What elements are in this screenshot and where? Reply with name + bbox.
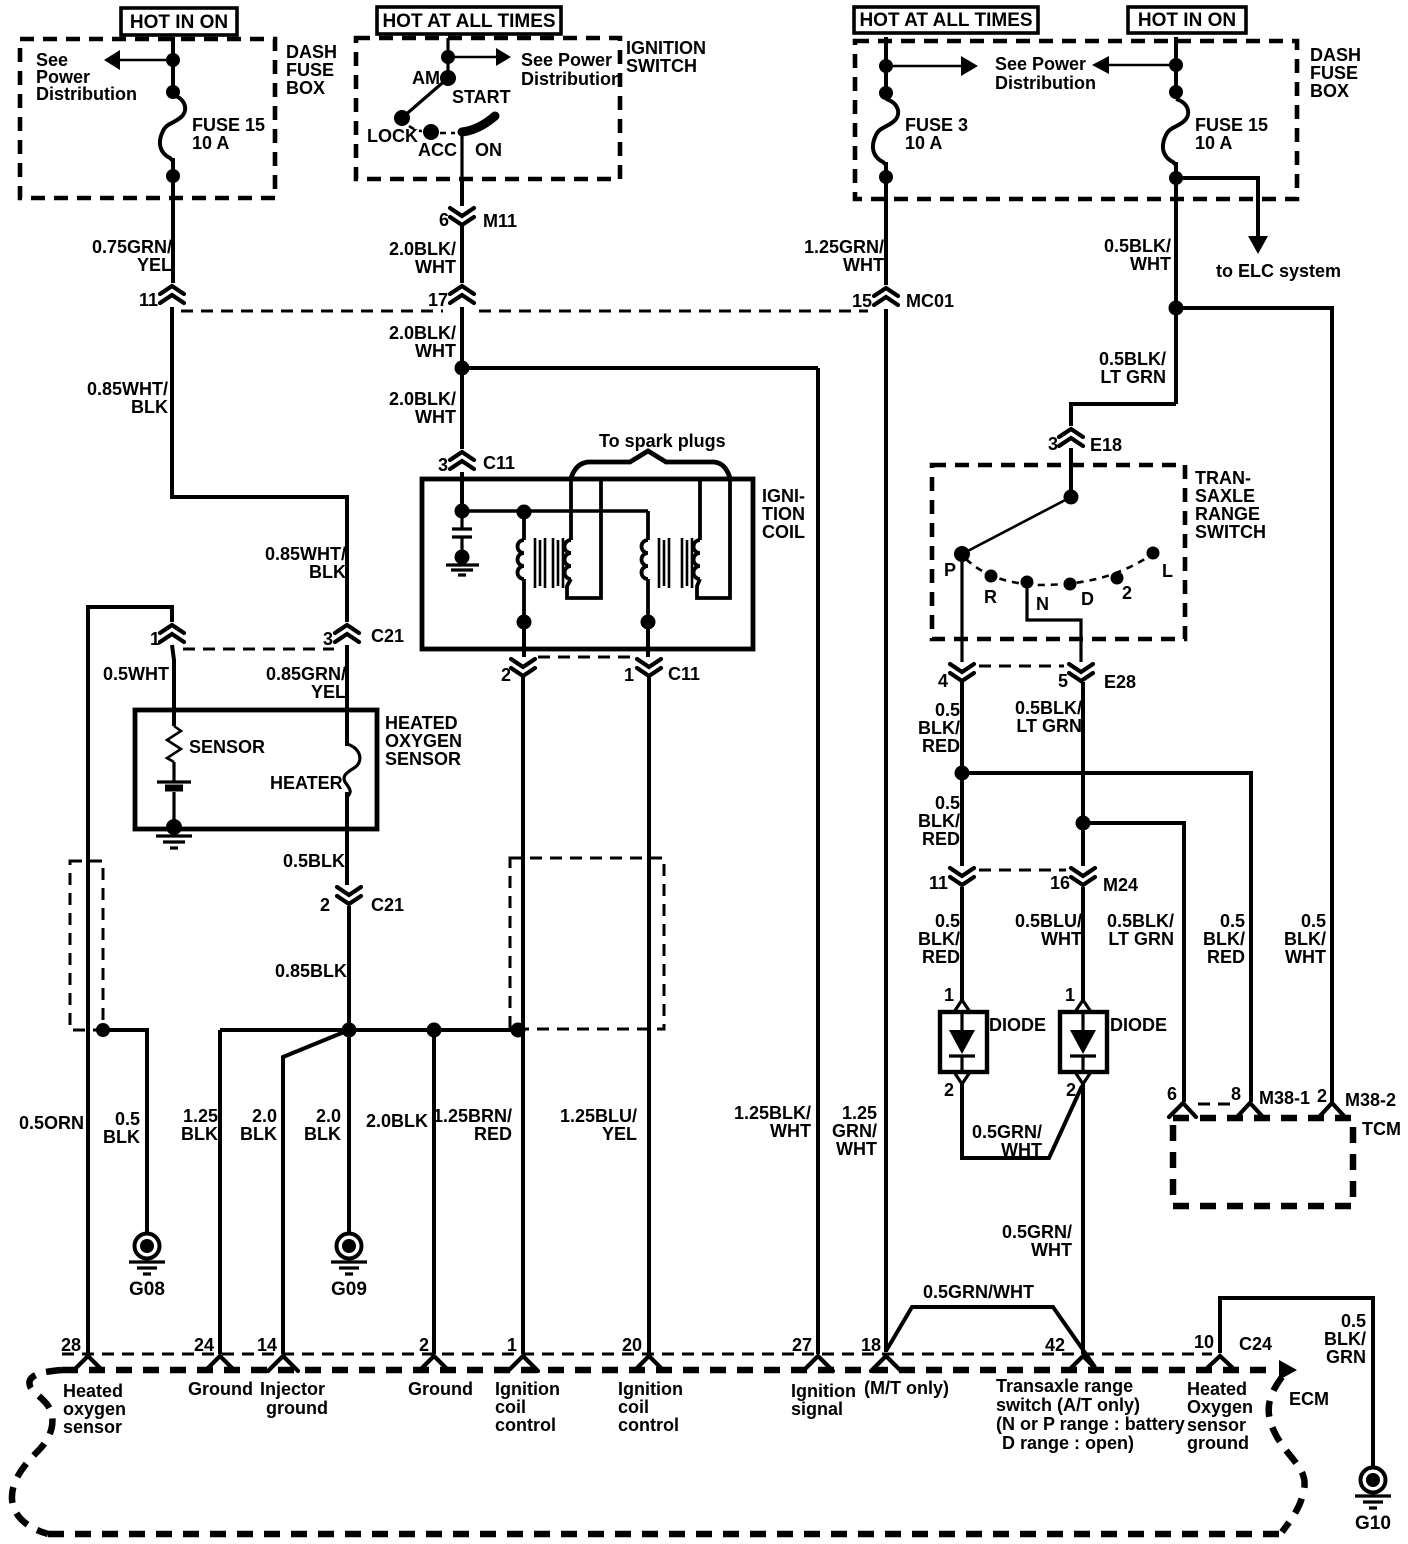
wire 2.0BLK diagonal to pin 14 bbox=[283, 1030, 349, 1354]
ECM outline right curl bbox=[1269, 1377, 1305, 1532]
contact N bbox=[1021, 576, 1034, 589]
node AM feed dot bbox=[441, 50, 455, 64]
svg-text:0.5BLK/: 0.5BLK/ bbox=[1015, 698, 1082, 718]
label 0.5 BLK/ RED bbox=[918, 700, 960, 756]
wire heater out bbox=[345, 792, 349, 885]
svg-text:See Power: See Power bbox=[995, 54, 1086, 74]
label IGNITION SWITCH bbox=[626, 38, 706, 76]
svg-text:control: control bbox=[495, 1415, 556, 1435]
svg-text:WHT: WHT bbox=[1285, 947, 1326, 967]
node condenser ground dot bbox=[455, 550, 470, 565]
ECM pin 14 bbox=[257, 1335, 298, 1371]
svg-text:TION: TION bbox=[762, 504, 805, 524]
svg-text:GRN: GRN bbox=[1326, 1347, 1366, 1367]
wire arrow to See Power Distribution (right) bbox=[448, 56, 497, 59]
harness dashed line C21 bbox=[183, 648, 334, 651]
ECM pin 20 bbox=[622, 1335, 664, 1371]
ECM pin 18 bbox=[861, 1335, 901, 1371]
wire coil primary bus bbox=[462, 509, 648, 513]
svg-text:C21: C21 bbox=[371, 626, 404, 646]
wire T1 primary out bbox=[522, 622, 526, 657]
label 0.5BLK/WHT bbox=[1104, 236, 1171, 274]
svg-text:Distribution: Distribution bbox=[995, 73, 1096, 93]
svg-text:ground: ground bbox=[266, 1398, 328, 1418]
TCM pin 2 tent bbox=[1317, 1086, 1396, 1117]
svg-text:1.25: 1.25 bbox=[183, 1106, 218, 1126]
svg-text:FUSE 15: FUSE 15 bbox=[1195, 115, 1268, 135]
svg-text:2: 2 bbox=[1066, 1080, 1076, 1100]
dash fuse box (left) dashed outline bbox=[20, 39, 275, 198]
svg-text:1: 1 bbox=[624, 665, 634, 685]
svg-text:0.5BLU/: 0.5BLU/ bbox=[1015, 911, 1082, 931]
connector E28 pin 5 chevrons bbox=[1058, 664, 1136, 692]
svg-text:HOT IN ON: HOT IN ON bbox=[1138, 10, 1236, 31]
contact L bbox=[1147, 547, 1160, 560]
svg-text:(M/T only): (M/T only) bbox=[864, 1378, 949, 1398]
contact arc dashed bbox=[966, 557, 1148, 585]
label 0.5 BLK (G08) bbox=[103, 1109, 140, 1147]
transformer T1 primary bbox=[518, 512, 525, 622]
svg-text:2: 2 bbox=[1122, 583, 1132, 603]
label 0.5 BLK/ RED (TCM8) bbox=[1203, 911, 1245, 967]
label 1.25GRN/WHT bbox=[804, 237, 884, 275]
wire arrow to See Power Distribution bbox=[118, 59, 173, 62]
svg-text:4: 4 bbox=[938, 671, 948, 691]
svg-text:E28: E28 bbox=[1104, 672, 1136, 692]
wire 1.25BLK to pin 24 bbox=[218, 1030, 222, 1354]
wire conn11 to diode 1 bbox=[960, 887, 964, 1000]
label FUSE 15 10 A bbox=[192, 115, 265, 153]
svg-text:0.5WHT: 0.5WHT bbox=[103, 664, 169, 684]
svg-text:control: control bbox=[618, 1415, 679, 1435]
label 0.5 BLK/ WHT (TCM2) bbox=[1284, 911, 1326, 967]
svg-text:0.85BLK: 0.85BLK bbox=[275, 961, 347, 981]
ECM pin 1 bbox=[507, 1335, 538, 1371]
svg-text:0.5ORN: 0.5ORN bbox=[19, 1113, 84, 1133]
svg-text:ON: ON bbox=[475, 140, 502, 160]
svg-text:2: 2 bbox=[419, 1335, 429, 1355]
wire conn5 down bbox=[1081, 682, 1085, 866]
svg-text:Injector: Injector bbox=[260, 1379, 325, 1399]
ignition coil box bbox=[422, 479, 753, 649]
svg-text:HOT AT ALL TIMES: HOT AT ALL TIMES bbox=[859, 10, 1032, 31]
svg-text:BLK/: BLK/ bbox=[1203, 929, 1245, 949]
label Transaxle range switch bbox=[996, 1376, 1185, 1453]
ECM pin 42 bbox=[1045, 1335, 1098, 1371]
svg-text:RED: RED bbox=[922, 947, 960, 967]
svg-text:WHT: WHT bbox=[836, 1139, 877, 1159]
svg-text:0.5: 0.5 bbox=[935, 911, 960, 931]
svg-text:IGNITION: IGNITION bbox=[626, 38, 706, 58]
svg-text:0.85GRN/: 0.85GRN/ bbox=[266, 664, 346, 684]
wire 1.25BLU/YEL C11-1 to pin 20 bbox=[647, 677, 651, 1354]
wire ON contact down bbox=[460, 132, 463, 179]
label 0.5BLU/ WHT bbox=[1015, 911, 1082, 949]
node switch feed dot bbox=[1064, 490, 1079, 505]
svg-text:M38-2: M38-2 bbox=[1345, 1090, 1396, 1110]
label Heated Oxygen sensor ground bbox=[1187, 1379, 1253, 1453]
svg-text:0.5: 0.5 bbox=[935, 700, 960, 720]
svg-text:3: 3 bbox=[323, 629, 333, 649]
wire into transaxle switch bbox=[1069, 448, 1073, 497]
node T1 primary out dot bbox=[517, 615, 532, 630]
svg-text:RANGE: RANGE bbox=[1195, 504, 1260, 524]
label Ignition coil control (20) bbox=[618, 1379, 683, 1435]
label 0.5 BLK/ RED (diode1) bbox=[918, 911, 960, 967]
wire arrow left from fuse15 feed bbox=[1108, 64, 1176, 67]
svg-text:D: D bbox=[1081, 589, 1094, 609]
svg-text:2: 2 bbox=[320, 895, 330, 915]
svg-text:2: 2 bbox=[501, 665, 511, 685]
label 2.0BLK/WHT bbox=[389, 239, 456, 277]
svg-text:LT GRN: LT GRN bbox=[1016, 716, 1082, 736]
svg-text:C11: C11 bbox=[668, 664, 700, 684]
label 1.25 BLK bbox=[181, 1106, 218, 1144]
wire 1.25BRN/RED C11-2 to pin 1 bbox=[521, 677, 525, 1354]
wire branch to TCM pin 6 bbox=[1083, 823, 1184, 1102]
svg-text:WHT: WHT bbox=[1001, 1140, 1042, 1160]
wire fuse3 to box bottom bbox=[884, 162, 888, 199]
svg-text:10 A: 10 A bbox=[1195, 133, 1232, 153]
svg-text:BLK: BLK bbox=[131, 397, 168, 417]
ECM outline bottom bbox=[48, 1531, 1282, 1538]
svg-text:coil: coil bbox=[495, 1397, 526, 1417]
shield dashed box (left) bbox=[70, 861, 103, 1030]
wire diode2 to pin 42 bbox=[1081, 1084, 1085, 1354]
label 1.25 GRN/ WHT bbox=[832, 1103, 877, 1159]
harness dashed line TCM bbox=[1198, 1103, 1234, 1106]
svg-text:15: 15 bbox=[852, 291, 872, 311]
label DASH FUSE BOX bbox=[1310, 45, 1361, 101]
svg-text:1: 1 bbox=[944, 985, 954, 1005]
svg-text:BOX: BOX bbox=[286, 78, 325, 98]
svg-text:MC01: MC01 bbox=[906, 291, 954, 311]
svg-text:0.5: 0.5 bbox=[115, 1109, 140, 1129]
label 1.25BLU/YEL bbox=[560, 1106, 637, 1144]
contact LOCK bbox=[394, 110, 410, 126]
wire N jog to connector 5 bbox=[1027, 582, 1081, 662]
svg-text:0.5BLK/: 0.5BLK/ bbox=[1104, 236, 1171, 256]
svg-text:RED: RED bbox=[474, 1124, 512, 1144]
wire arrow right to See Power Distribution bbox=[886, 65, 962, 68]
svg-text:SWITCH: SWITCH bbox=[626, 56, 697, 76]
label See Power Distribution bbox=[995, 54, 1096, 93]
wire branch to TCM pin 2 bbox=[1176, 308, 1332, 1102]
wire 0.85BLK to ground bus bbox=[347, 906, 351, 1030]
svg-text:10: 10 bbox=[1194, 1332, 1214, 1352]
ECM pin 28 bbox=[61, 1335, 103, 1371]
connector M24 pin 11 chevrons bbox=[929, 868, 974, 893]
svg-text:R: R bbox=[984, 587, 997, 607]
svg-text:24: 24 bbox=[194, 1335, 214, 1355]
svg-text:BLK/: BLK/ bbox=[918, 718, 960, 738]
node BLK/RED branch dot bbox=[955, 766, 970, 781]
label HOT IN ON bbox=[1128, 7, 1246, 33]
svg-text:2: 2 bbox=[944, 1080, 954, 1100]
wire fuse15 feed bbox=[1174, 37, 1178, 99]
label HOT IN ON bbox=[121, 8, 237, 35]
svg-text:BLK/: BLK/ bbox=[1324, 1329, 1366, 1349]
connector C21 pin 1 chevrons bbox=[150, 625, 184, 649]
svg-text:2.0BLK/: 2.0BLK/ bbox=[389, 389, 456, 409]
svg-text:WHT: WHT bbox=[415, 341, 456, 361]
ECM pin 10 bbox=[1194, 1332, 1272, 1370]
wire 0.5GRN/WHT diode1 jog to diode2 bbox=[962, 1084, 1082, 1158]
label 0.5 BLK/ GRN bbox=[1324, 1311, 1366, 1367]
connector M11 pin 6 chevrons bbox=[439, 208, 517, 231]
connector E28 pin 4 chevrons bbox=[938, 664, 974, 691]
svg-text:ECM: ECM bbox=[1289, 1389, 1329, 1409]
label Ignition coil control (1) bbox=[495, 1379, 560, 1435]
svg-text:LOCK: LOCK bbox=[367, 126, 418, 146]
svg-text:C11: C11 bbox=[483, 453, 515, 473]
svg-text:sensor: sensor bbox=[63, 1417, 122, 1437]
connector 17 chevrons bbox=[428, 286, 474, 310]
svg-text:BLK/: BLK/ bbox=[918, 811, 960, 831]
label HOT AT ALL TIMES bbox=[377, 7, 561, 34]
wire fuse15 out bbox=[1174, 199, 1178, 404]
svg-text:P: P bbox=[944, 560, 956, 580]
harness dashed line under coil bbox=[538, 656, 636, 659]
svg-text:0.5BLK/: 0.5BLK/ bbox=[1107, 911, 1174, 931]
svg-text:BLK: BLK bbox=[304, 1124, 341, 1144]
svg-text:1.25BRN/: 1.25BRN/ bbox=[433, 1106, 512, 1126]
svg-text:coil: coil bbox=[618, 1397, 649, 1417]
label 0.85WHT/BLK (second) bbox=[265, 544, 346, 582]
svg-text:Distribution: Distribution bbox=[36, 84, 137, 104]
label FUSE 3 10 A bbox=[905, 115, 968, 153]
capacitor condenser bbox=[452, 511, 472, 552]
wire sensor pin down bbox=[172, 645, 174, 726]
svg-text:2.0BLK/: 2.0BLK/ bbox=[389, 323, 456, 343]
svg-text:1: 1 bbox=[150, 629, 160, 649]
svg-text:AM: AM bbox=[412, 68, 440, 88]
svg-text:6: 6 bbox=[1167, 1084, 1177, 1104]
svg-text:ground: ground bbox=[1187, 1433, 1249, 1453]
contact D bbox=[1064, 578, 1077, 591]
transformer T2 secondary bbox=[694, 480, 730, 598]
heated oxygen sensor box bbox=[135, 710, 377, 829]
svg-text:1: 1 bbox=[1065, 985, 1075, 1005]
contact 2 bbox=[1111, 572, 1124, 585]
svg-text:Heated: Heated bbox=[1187, 1379, 1247, 1399]
svg-text:LT GRN: LT GRN bbox=[1100, 367, 1166, 387]
connector MC01 pin 15 chevrons bbox=[852, 288, 954, 311]
svg-text:BLK: BLK bbox=[309, 562, 346, 582]
wire 2.0BLK to G09 bbox=[347, 1030, 351, 1233]
svg-text:RED: RED bbox=[922, 829, 960, 849]
harness dashed line (middle) bbox=[479, 310, 868, 313]
wire fuse3 feed bbox=[884, 37, 888, 99]
svg-text:RED: RED bbox=[922, 736, 960, 756]
wire elbow to E18 bbox=[1071, 404, 1176, 426]
svg-text:0.5BLK: 0.5BLK bbox=[283, 851, 345, 871]
label HEATED OXYGEN SENSOR bbox=[385, 713, 462, 769]
svg-text:18: 18 bbox=[861, 1335, 881, 1355]
svg-text:2: 2 bbox=[1317, 1086, 1327, 1106]
svg-text:Distribution: Distribution bbox=[521, 69, 622, 89]
transformer T2 primary bbox=[642, 511, 648, 622]
svg-text:11: 11 bbox=[139, 290, 158, 310]
wire stub to G08 bbox=[103, 1030, 147, 1233]
node branch dot bbox=[1169, 301, 1184, 316]
ground (sensor) bbox=[156, 836, 192, 848]
label 0.5BLK/ LT GRN (down) bbox=[1107, 911, 1174, 949]
label Ignition signal bbox=[791, 1381, 856, 1419]
svg-text:ACC: ACC bbox=[418, 140, 457, 160]
ground (coil condenser) bbox=[446, 565, 479, 575]
shield dashed box (right) bbox=[510, 858, 664, 1029]
svg-text:Ground: Ground bbox=[408, 1379, 473, 1399]
svg-text:FUSE 15: FUSE 15 bbox=[192, 115, 265, 135]
svg-text:0.5: 0.5 bbox=[1220, 911, 1245, 931]
label 2.0 BLK (G09) bbox=[304, 1106, 341, 1144]
svg-text:DASH: DASH bbox=[1310, 45, 1361, 65]
label 0.5 BLK/ RED (below) bbox=[918, 793, 960, 849]
dashed detent LOCK-ACC bbox=[409, 126, 422, 131]
contact ACC bbox=[423, 124, 439, 140]
svg-text:5: 5 bbox=[1058, 671, 1068, 691]
svg-text:DIODE: DIODE bbox=[989, 1015, 1046, 1035]
diode D1 bbox=[940, 985, 1046, 1100]
ECM outline left curl bbox=[12, 1370, 62, 1534]
wire 1.25GRN/WHT to pin 18 bbox=[884, 309, 888, 1352]
transformer T1 core bbox=[535, 538, 563, 588]
svg-text:SAXLE: SAXLE bbox=[1195, 486, 1255, 506]
svg-text:14: 14 bbox=[257, 1335, 277, 1355]
svg-text:0.5GRN/: 0.5GRN/ bbox=[972, 1122, 1042, 1142]
svg-text:N: N bbox=[1036, 594, 1049, 614]
svg-text:BOX: BOX bbox=[1310, 81, 1349, 101]
svg-text:DIODE: DIODE bbox=[1110, 1015, 1167, 1035]
node ignition feed junction bbox=[455, 361, 470, 376]
svg-text:YEL: YEL bbox=[602, 1124, 637, 1144]
node junction dot bbox=[166, 53, 180, 67]
svg-text:L: L bbox=[1162, 561, 1173, 581]
transformer T2 core bbox=[659, 538, 692, 588]
wire fuse15 to box bottom bbox=[1174, 162, 1178, 199]
heater resistor coil bbox=[344, 744, 360, 800]
svg-text:0.85WHT/: 0.85WHT/ bbox=[87, 379, 168, 399]
label See Power Distribution bbox=[36, 50, 137, 104]
svg-text:DASH: DASH bbox=[286, 42, 337, 62]
svg-text:TCM: TCM bbox=[1362, 1119, 1401, 1139]
svg-text:BLK: BLK bbox=[181, 1124, 218, 1144]
svg-text:BLK/: BLK/ bbox=[1284, 929, 1326, 949]
switch arc ON-START bbox=[462, 116, 495, 132]
label TRAN-SAXLE RANGE SWITCH bbox=[1195, 468, 1266, 542]
ECM pin labels bbox=[63, 1381, 126, 1437]
label See Power Distribution bbox=[521, 50, 622, 89]
transformer T1 secondary bbox=[565, 480, 601, 598]
wire pin10 up and over to G10 bbox=[1220, 1298, 1373, 1468]
svg-text:0.5: 0.5 bbox=[1301, 911, 1326, 931]
svg-text:Transaxle range: Transaxle range bbox=[996, 1376, 1133, 1396]
svg-text:3: 3 bbox=[1048, 434, 1058, 454]
svg-text:sensor: sensor bbox=[1187, 1415, 1246, 1435]
svg-text:17: 17 bbox=[428, 290, 448, 310]
svg-text:1.25GRN/: 1.25GRN/ bbox=[804, 237, 884, 257]
svg-text:LT GRN: LT GRN bbox=[1108, 929, 1174, 949]
wire from top into switch bbox=[446, 38, 449, 77]
wire into coil box bbox=[460, 472, 464, 511]
svg-text:0.85WHT/: 0.85WHT/ bbox=[265, 544, 346, 564]
svg-text:FUSE: FUSE bbox=[1310, 63, 1358, 83]
label HOT AT ALL TIMES bbox=[854, 7, 1038, 33]
svg-text:2.0BLK: 2.0BLK bbox=[366, 1111, 428, 1131]
connector M24 pin 16 chevrons bbox=[1050, 868, 1138, 895]
svg-text:GRN/: GRN/ bbox=[832, 1121, 877, 1141]
ground G09 bbox=[331, 1234, 367, 1301]
svg-text:G10: G10 bbox=[1355, 1513, 1391, 1534]
svg-text:2.0BLK/: 2.0BLK/ bbox=[389, 239, 456, 259]
label Injector ground bbox=[260, 1379, 328, 1418]
node sensor ground dot bbox=[166, 819, 182, 835]
svg-text:FUSE: FUSE bbox=[286, 60, 334, 80]
node T2 primary out dot bbox=[641, 615, 656, 630]
spark plug brace bbox=[571, 451, 730, 478]
svg-text:OXYGEN: OXYGEN bbox=[385, 731, 462, 751]
label 0.85WHT/BLK bbox=[87, 379, 168, 417]
svg-text:To spark plugs: To spark plugs bbox=[599, 431, 726, 451]
label DASH FUSE BOX bbox=[286, 42, 337, 98]
svg-text:SENSOR: SENSOR bbox=[385, 749, 461, 769]
label 2.0BLK/WHT bbox=[389, 323, 456, 361]
harness dashed line M24 bbox=[979, 869, 1066, 872]
label IGNI-TION COIL bbox=[762, 486, 805, 542]
ground bus wire bbox=[220, 1028, 523, 1032]
svg-text:1.25BLU/: 1.25BLU/ bbox=[560, 1106, 637, 1126]
svg-text:COIL: COIL bbox=[762, 522, 805, 542]
svg-text:See Power: See Power bbox=[521, 50, 612, 70]
fuse F15 symbol (right) bbox=[1163, 99, 1188, 165]
svg-text:WHT: WHT bbox=[770, 1121, 811, 1141]
wire ignition switch to M11 bbox=[460, 179, 464, 206]
svg-text:oxygen: oxygen bbox=[63, 1399, 126, 1419]
wire 0.75GRN/YEL fuse box to connector 11 bbox=[171, 198, 175, 283]
svg-text:G09: G09 bbox=[331, 1279, 367, 1300]
svg-text:to ELC system: to ELC system bbox=[1216, 261, 1341, 281]
dash fuse box (right) dashed outline bbox=[855, 41, 1297, 199]
ECM pin 24 bbox=[194, 1335, 235, 1371]
svg-text:START: START bbox=[452, 87, 511, 107]
wire 2.0BLK to pin 2 bbox=[432, 1030, 436, 1354]
wire P to connector 4 bbox=[960, 554, 963, 662]
connector C11 pin 1 chevrons bbox=[624, 659, 700, 685]
ECM dashed outline top with arrow bbox=[62, 1367, 1276, 1374]
switch blade AM-LOCK bbox=[403, 78, 448, 117]
svg-text:6: 6 bbox=[439, 210, 449, 230]
svg-text:2.0: 2.0 bbox=[252, 1106, 277, 1126]
TCM pin 6 tent bbox=[1167, 1084, 1196, 1117]
harness dashed line E28 bbox=[979, 665, 1064, 668]
TCM dashed box bbox=[1173, 1118, 1353, 1206]
wire heater pin down bbox=[345, 645, 349, 746]
svg-text:Ignition: Ignition bbox=[791, 1381, 856, 1401]
svg-text:YEL: YEL bbox=[137, 255, 172, 275]
svg-text:M24: M24 bbox=[1103, 875, 1138, 895]
wire conn16 to diode 2 bbox=[1081, 887, 1085, 1000]
svg-text:28: 28 bbox=[61, 1335, 81, 1355]
svg-text:Heated: Heated bbox=[63, 1381, 123, 1401]
svg-text:C21: C21 bbox=[371, 895, 404, 915]
svg-text:0.75GRN/: 0.75GRN/ bbox=[92, 237, 172, 257]
wire 0.5WHT loop over bbox=[88, 607, 172, 1354]
svg-text:Ground: Ground bbox=[188, 1379, 253, 1399]
svg-text:10 A: 10 A bbox=[192, 133, 229, 153]
wire fuse3 out to MC01 bbox=[884, 199, 888, 285]
svg-text:3: 3 bbox=[438, 455, 448, 475]
